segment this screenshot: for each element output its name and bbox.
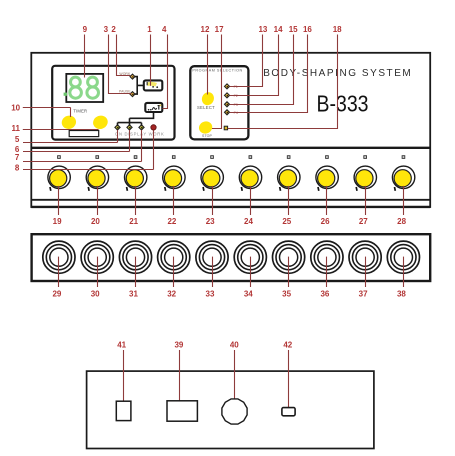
svg-text:SELECT: SELECT: [197, 105, 215, 110]
svg-text:STOP: STOP: [202, 134, 213, 138]
svg-text:33: 33: [206, 290, 215, 299]
svg-text:9: 9: [83, 25, 88, 34]
svg-text:29: 29: [52, 290, 61, 299]
svg-text:40: 40: [230, 340, 239, 349]
svg-text:11: 11: [11, 124, 20, 133]
svg-text:25: 25: [282, 217, 291, 226]
svg-text:16: 16: [303, 25, 312, 34]
svg-text:15: 15: [289, 25, 298, 34]
svg-text:7: 7: [15, 153, 20, 162]
svg-text:41: 41: [117, 340, 126, 349]
svg-text:23: 23: [206, 217, 215, 226]
svg-text:5: 5: [15, 135, 20, 144]
svg-text:PROGRAM SELECTION: PROGRAM SELECTION: [192, 68, 242, 72]
svg-text:27: 27: [359, 217, 368, 226]
svg-text:19: 19: [53, 217, 62, 226]
svg-text:37: 37: [359, 290, 368, 299]
svg-text:TIMER: TIMER: [73, 109, 87, 114]
svg-text:35: 35: [282, 290, 291, 299]
svg-text:12: 12: [201, 25, 210, 34]
svg-text:30: 30: [91, 290, 100, 299]
svg-text:18: 18: [333, 25, 342, 34]
svg-text:10: 10: [11, 103, 20, 112]
svg-text:8: 8: [15, 164, 20, 173]
svg-text:26: 26: [321, 217, 330, 226]
svg-text:21: 21: [129, 217, 138, 226]
svg-text:4: 4: [162, 25, 167, 34]
svg-text:22: 22: [167, 217, 176, 226]
svg-text:42: 42: [283, 340, 292, 349]
svg-text:34: 34: [244, 290, 253, 299]
svg-text:28: 28: [397, 217, 406, 226]
svg-text:36: 36: [320, 290, 329, 299]
svg-text:ON DISPLAY WORK: ON DISPLAY WORK: [115, 132, 164, 137]
svg-text:1: 1: [147, 25, 152, 34]
svg-text:13: 13: [258, 25, 267, 34]
svg-text:20: 20: [91, 217, 100, 226]
svg-text:2: 2: [111, 25, 116, 34]
svg-text:B-333: B-333: [317, 90, 369, 116]
svg-text:38: 38: [397, 290, 406, 299]
svg-text:14: 14: [274, 25, 283, 34]
svg-text:24: 24: [244, 217, 253, 226]
svg-text:17: 17: [215, 25, 224, 34]
svg-text:39: 39: [174, 340, 183, 349]
svg-text:3: 3: [104, 25, 109, 34]
svg-text:32: 32: [167, 290, 176, 299]
svg-text:31: 31: [129, 290, 138, 299]
